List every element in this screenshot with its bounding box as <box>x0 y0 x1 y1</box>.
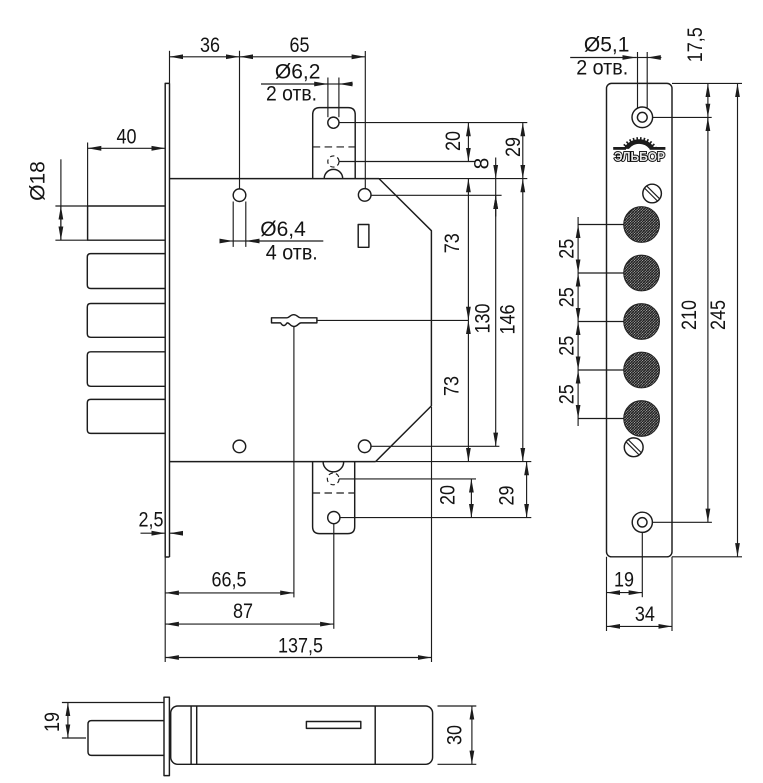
bottom view body <box>171 706 433 764</box>
top screw hole inner <box>637 112 647 122</box>
svg-text:Ø6,4: Ø6,4 <box>260 218 306 241</box>
svg-text:29: 29 <box>496 486 519 506</box>
svg-text:17,5: 17,5 <box>684 27 707 62</box>
svg-text:25: 25 <box>555 384 578 404</box>
dim 30 line <box>471 706 473 764</box>
svg-text:2,5: 2,5 <box>139 509 164 532</box>
bottom view faceplate <box>164 697 169 775</box>
extension keyhole center down <box>293 327 295 598</box>
svg-text:73: 73 <box>441 376 464 396</box>
svg-text:146: 146 <box>496 305 519 335</box>
bolt 5 <box>87 399 165 433</box>
body hole top-right <box>358 189 371 202</box>
dim 34 extension line <box>671 557 673 631</box>
dim 40 extension line <box>87 143 89 206</box>
dim 30 extension stubs <box>438 705 477 707</box>
dim D5.1 extension lines <box>637 52 639 108</box>
logo left bar <box>613 147 626 150</box>
dim 2.5 left arrow <box>141 532 166 534</box>
svg-text:25: 25 <box>555 336 578 356</box>
keyhole profile <box>272 315 317 327</box>
svg-text:8: 8 <box>470 158 493 170</box>
svg-text:25: 25 <box>555 287 578 307</box>
faceplate strip <box>165 83 169 557</box>
body hole top-left <box>233 189 246 202</box>
svg-text:19: 19 <box>41 712 64 732</box>
dim 137.5 line <box>165 657 431 659</box>
dim 19 bottom extension stub <box>62 737 86 739</box>
faceplate right edge / body left edge <box>169 83 171 557</box>
dim 19 extension lines <box>606 557 608 631</box>
dim 210 line <box>707 117 709 522</box>
svg-text:130: 130 <box>472 304 495 334</box>
dim D6.4 left arrow <box>222 240 234 242</box>
dim D6.2 right arrow tail <box>339 83 353 85</box>
svg-text:25: 25 <box>555 239 578 259</box>
extension line hole top-left <box>239 51 241 189</box>
dim 19 bottom line <box>67 703 69 739</box>
logo right bar <box>650 147 666 150</box>
dim D6.2 extension lines <box>327 78 329 118</box>
dim D6.4 extension lines <box>232 202 234 247</box>
dim D6.4 right arrow and fraction bar <box>246 240 323 242</box>
top tab fold dashed line <box>313 146 356 148</box>
svg-text:2 отв.: 2 отв. <box>266 83 317 106</box>
svg-text:210: 210 <box>678 300 701 330</box>
svg-text:29: 29 <box>502 137 525 157</box>
faceplate bottom edge extension <box>672 556 742 558</box>
arc of hidden boss at body top edge <box>324 169 343 178</box>
svg-text:34: 34 <box>635 603 655 626</box>
dim 17.5 line <box>707 83 709 117</box>
bolt hole 2 <box>624 255 660 291</box>
bottom screw hole inner <box>638 518 647 527</box>
faceplate plate outline <box>607 83 673 556</box>
bottom tab hole <box>328 511 340 523</box>
dim 73 bottom line <box>467 320 469 461</box>
dim 8 gap segment <box>495 179 497 196</box>
dim D5.1 underline and left arrow <box>570 57 636 59</box>
screw 1 <box>643 184 662 203</box>
extension above faceplate <box>169 51 171 84</box>
dim 29 top line <box>522 123 524 179</box>
bottom view slot <box>306 722 360 729</box>
dim 25 chain segments <box>577 225 579 274</box>
dim D18 line with arrows <box>60 206 62 240</box>
dim 130 line <box>495 195 497 446</box>
top mounting tab <box>313 108 356 179</box>
dim 66.5 line <box>165 592 294 594</box>
dim 20 bottom line <box>470 479 472 518</box>
dim D6.2 gap segment <box>328 83 339 85</box>
bolt 4 <box>87 352 165 387</box>
body hole bottom-right <box>358 440 371 453</box>
top screw hole outer <box>632 107 653 128</box>
dim D6.4 gap segment <box>233 240 246 242</box>
dim 34 line <box>607 625 673 627</box>
svg-text:2 отв.: 2 отв. <box>576 57 628 80</box>
faceplate top edge extension <box>672 82 742 84</box>
dim 87 line <box>165 623 334 625</box>
svg-text:87: 87 <box>233 600 253 623</box>
screw 2 <box>624 438 643 457</box>
svg-text:30: 30 <box>444 725 467 745</box>
dim 245 line <box>737 83 739 556</box>
leader from bottom tab hidden hole <box>339 478 476 480</box>
leader from top tab hole <box>339 122 527 124</box>
svg-text:19: 19 <box>614 569 634 592</box>
bolt hole 1 <box>624 207 660 243</box>
dim 36 line <box>170 56 240 58</box>
svg-text:ЭЛЬБОР: ЭЛЬБОР <box>614 150 665 164</box>
dim 19 bottom extension top <box>62 702 164 704</box>
body top edge extension right <box>379 178 527 180</box>
dim 40 line <box>88 147 166 149</box>
dim 2.5 right arrow <box>170 532 184 534</box>
extension faceplate left edge down <box>164 557 166 662</box>
svg-text:65: 65 <box>290 34 310 57</box>
bolt hole 3 <box>624 304 660 340</box>
svg-text:20: 20 <box>437 485 460 505</box>
svg-text:36: 36 <box>200 34 220 57</box>
dim D5.1 right arrow tail <box>647 57 661 59</box>
leader from bottom screw hole <box>652 521 712 523</box>
bottom tab fold dashed line <box>313 492 355 494</box>
extension bottom tab hole down <box>333 524 335 629</box>
svg-text:Ø6,2: Ø6,2 <box>275 61 321 84</box>
bottom mounting tab <box>313 462 355 534</box>
body hole bottom-left <box>233 440 246 453</box>
svg-text:Ø18: Ø18 <box>27 161 50 201</box>
body bottom edge <box>170 461 376 463</box>
svg-text:73: 73 <box>441 233 464 253</box>
dim 146 line <box>522 179 524 462</box>
top tab hidden hole (dashed) <box>328 156 339 167</box>
extension line hole top-right <box>364 51 366 189</box>
leader from body hole bottom-right <box>371 445 499 447</box>
dim 65 line <box>240 56 366 58</box>
body top edge <box>170 178 380 180</box>
keyhole leader right <box>317 319 468 321</box>
dim D6.2 underline and left arrow <box>261 83 328 85</box>
svg-text:245: 245 <box>707 300 730 330</box>
svg-text:40: 40 <box>117 125 137 148</box>
body right outline with corner cuts <box>376 179 432 462</box>
svg-text:Ø5,1: Ø5,1 <box>584 34 630 57</box>
extension body right edge down <box>431 407 433 662</box>
bolt hole 5 <box>624 401 660 437</box>
logo saw arc crescent <box>624 139 655 149</box>
dim 25 chain leaders <box>578 224 624 226</box>
svg-text:4 отв.: 4 отв. <box>266 242 318 265</box>
dim D5.1 gap segment <box>636 57 647 59</box>
leader from body hole top-right <box>371 194 502 196</box>
bottom view inner band <box>190 706 192 764</box>
latch slot <box>358 225 369 248</box>
top tab hole <box>328 117 339 128</box>
body bottom edge extension right <box>376 461 532 463</box>
dim 19 right line <box>607 592 643 594</box>
bolt 3 <box>87 304 165 338</box>
bottom tab hidden hole (dashed) <box>327 473 339 485</box>
bottom screw hole outer <box>632 512 652 532</box>
leader from bottom tab hole <box>340 517 531 519</box>
dim D18 extension lines <box>55 205 87 207</box>
bolt 1 <box>88 206 166 240</box>
logo saw teeth <box>622 138 656 148</box>
svg-text:137,5: 137,5 <box>278 634 323 657</box>
bottom view divider <box>374 706 376 764</box>
svg-text:66,5: 66,5 <box>212 569 247 592</box>
dim 73 top line <box>467 179 469 321</box>
leader from top screw hole <box>653 116 712 118</box>
bolt hole 4 <box>624 352 660 388</box>
dim 8 arrows outside <box>495 158 497 179</box>
bolt 2 <box>87 254 165 289</box>
arc of hidden boss at body bottom edge <box>323 462 344 472</box>
leader from top tab hidden hole <box>339 161 476 163</box>
dim 20 top line <box>467 123 469 162</box>
bottom view bolt <box>88 721 164 756</box>
svg-text:20: 20 <box>442 131 465 151</box>
dim 29 bottom line <box>526 462 528 518</box>
